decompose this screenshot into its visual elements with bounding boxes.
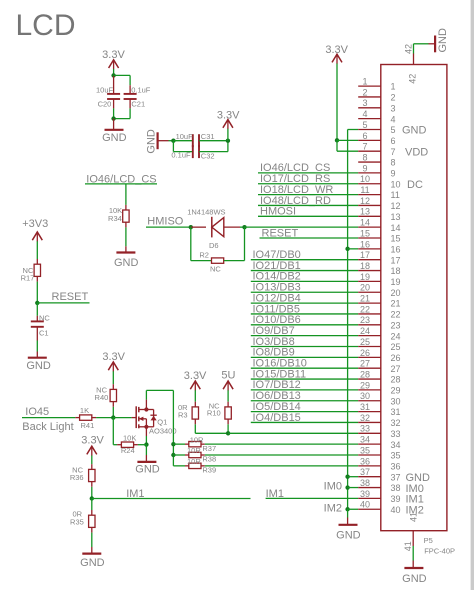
node RESET junction: [35, 301, 39, 305]
title text LCD: [16, 9, 76, 42]
svg-text:23: 23: [391, 320, 401, 330]
wire: [91, 533, 93, 547]
net label IO12/DB4 to pin 21: [251, 292, 358, 304]
wire: [113, 417, 131, 419]
svg-text:R37: R37: [202, 444, 216, 453]
node GND junction: [171, 139, 175, 143]
svg-text:C31: C31: [201, 132, 215, 141]
node 3.3V junction: [111, 73, 115, 77]
pin 40: [358, 500, 424, 517]
node HMISO junction: [189, 225, 193, 229]
svg-text:1K: 1K: [80, 406, 89, 415]
power 3.3V (C31 rail): [217, 109, 240, 140]
net label IO47/DB0 to pin 17: [251, 249, 358, 261]
svg-text:13: 13: [391, 212, 401, 222]
svg-text:33: 33: [391, 429, 401, 439]
pin 26: [358, 348, 400, 363]
svg-text:39: 39: [391, 494, 401, 504]
wire: [240, 226, 245, 228]
pin 22: [358, 304, 400, 319]
resistor R17 NC: [21, 259, 41, 283]
svg-text:20: 20: [391, 288, 401, 298]
pin 25: [358, 337, 400, 352]
net label IO15/DB11 to pin 28: [251, 368, 358, 380]
wire GND rail: [348, 130, 359, 510]
svg-text:19: 19: [391, 277, 401, 287]
svg-text:34: 34: [360, 435, 370, 445]
svg-text:0.1uF: 0.1uF: [171, 150, 191, 159]
svg-text:+3V3: +3V3: [22, 218, 48, 230]
svg-text:16: 16: [391, 244, 401, 254]
svg-text:DC: DC: [407, 179, 423, 191]
node GND rail pin 16: [345, 247, 358, 251]
net label IM1 (right) to pin 39: [266, 488, 359, 500]
svg-text:3: 3: [362, 98, 367, 108]
transistor Q1 AO3400: [132, 400, 177, 436]
power 3.3V (R3): [184, 370, 207, 391]
resistor R24 10K: [117, 434, 138, 455]
wire to pin 35: [205, 454, 358, 456]
pin 30: [358, 391, 400, 406]
svg-text:24: 24: [360, 326, 370, 336]
svg-text:35: 35: [391, 451, 401, 461]
node GND junction: [111, 116, 115, 120]
resistor R37 10R: [173, 435, 216, 453]
node GND rail pin 38: [345, 485, 358, 489]
svg-text:18: 18: [360, 261, 370, 271]
node GND rail pin 40: [345, 507, 358, 511]
pin 2: [358, 87, 395, 102]
pin 7: [358, 142, 428, 159]
svg-text:3.3V: 3.3V: [81, 435, 104, 447]
wire: [138, 444, 147, 446]
svg-text:22: 22: [391, 310, 401, 320]
svg-text:C32: C32: [201, 151, 215, 160]
diode D6 1N4148WS: [187, 208, 240, 250]
svg-text:12: 12: [360, 196, 370, 206]
svg-text:19: 19: [360, 272, 370, 282]
pin 28: [358, 369, 400, 384]
svg-text:11: 11: [360, 185, 369, 195]
wire: [227, 424, 229, 433]
svg-text:6: 6: [391, 136, 396, 146]
node IM1 junction: [90, 496, 94, 500]
pin 41: [403, 512, 418, 561]
pin 20: [358, 283, 400, 298]
connector name P5: [424, 536, 433, 545]
svg-text:GND: GND: [437, 28, 449, 53]
svg-text:NC: NC: [210, 264, 221, 273]
net label IO46/LCD_CS to pin 9: [258, 162, 358, 174]
svg-text:C21: C21: [131, 100, 145, 109]
svg-text:Back Light: Back Light: [22, 421, 73, 433]
svg-text:R35: R35: [70, 517, 84, 526]
svg-text:40: 40: [360, 500, 370, 510]
power +3V3: [22, 218, 48, 242]
svg-text:23: 23: [360, 315, 370, 325]
svg-text:40: 40: [391, 505, 401, 515]
pin 42: [404, 44, 429, 84]
net label IO21/DB1 to pin 18: [251, 260, 358, 272]
svg-text:27: 27: [360, 359, 370, 369]
ground (pin 42, sideways): [429, 28, 450, 53]
svg-text:16: 16: [360, 239, 370, 249]
pin 27: [358, 359, 400, 374]
svg-text:10R: 10R: [187, 446, 201, 455]
pin 12: [358, 196, 400, 211]
svg-text:NC: NC: [39, 313, 50, 322]
svg-text:LCD: LCD: [16, 9, 76, 42]
svg-text:IM0: IM0: [324, 481, 342, 493]
wire to pin 33: [228, 432, 358, 434]
wire: [227, 390, 229, 401]
svg-text:7: 7: [391, 147, 396, 157]
node backlight junction: [226, 431, 230, 435]
pin 39: [358, 489, 424, 506]
wire: [194, 390, 196, 401]
svg-text:5: 5: [362, 120, 367, 130]
svg-text:12: 12: [391, 201, 401, 211]
svg-text:GND: GND: [114, 257, 139, 269]
svg-text:1N4148WS: 1N4148WS: [187, 208, 225, 217]
node gate junction: [111, 415, 115, 419]
net label IO48/LCD_RD to pin 12: [258, 195, 358, 207]
wire drain loop: [146, 390, 173, 465]
net label RESET to pin 15: [260, 227, 359, 239]
svg-text:P5: P5: [424, 536, 433, 545]
pin 31: [358, 402, 400, 417]
svg-text:GND: GND: [402, 573, 427, 585]
svg-text:AO3400: AO3400: [149, 426, 177, 435]
resistor R39 10R: [173, 457, 216, 475]
pin 32: [358, 413, 400, 428]
ground (C31, sideways): [146, 129, 169, 154]
svg-text:41: 41: [403, 541, 413, 551]
svg-text:Q1: Q1: [157, 417, 167, 426]
net label IO14/DB2 to pin 19: [251, 271, 358, 283]
resistor R36 NC: [70, 464, 95, 487]
pin 6: [358, 131, 395, 146]
pin 5: [358, 120, 426, 137]
pin 8: [358, 152, 395, 167]
net label IO17/LCD_RS to pin 10: [258, 173, 358, 185]
svg-text:21: 21: [360, 294, 370, 304]
svg-text:10: 10: [391, 179, 401, 189]
svg-text:IO45: IO45: [25, 406, 49, 418]
wire: [195, 424, 228, 433]
power 3.3V (C20 rail): [102, 49, 125, 69]
wire: [96, 417, 113, 419]
svg-text:35: 35: [360, 445, 370, 455]
svg-text:28: 28: [391, 375, 401, 385]
wire HMISO to pin 14: [245, 226, 359, 228]
svg-text:8: 8: [362, 152, 367, 162]
svg-text:17: 17: [391, 255, 401, 265]
svg-text:30: 30: [391, 396, 401, 406]
wire: [125, 227, 127, 246]
svg-text:11: 11: [391, 190, 400, 200]
svg-text:GND: GND: [402, 125, 427, 137]
resistor R2 NC: [191, 227, 245, 273]
power 3.3V (R36): [81, 435, 104, 456]
power 5U (R10): [221, 369, 235, 390]
svg-text:9: 9: [362, 163, 367, 173]
pin 33: [358, 424, 400, 439]
pin 24: [358, 326, 400, 341]
svg-text:0.1uF: 0.1uF: [131, 85, 151, 94]
svg-text:27: 27: [391, 364, 401, 374]
svg-text:9: 9: [391, 169, 396, 179]
svg-text:R2: R2: [199, 251, 209, 260]
svg-text:HMISO: HMISO: [147, 216, 184, 228]
power 3.3V (R40): [102, 351, 125, 372]
pin 15: [358, 228, 400, 243]
svg-text:R40: R40: [95, 393, 109, 402]
svg-text:VDD: VDD: [405, 146, 428, 158]
net label IO46/LCD_CS (left): [85, 173, 157, 185]
svg-text:GND: GND: [146, 129, 158, 154]
svg-text:34: 34: [391, 440, 401, 450]
svg-text:41: 41: [409, 512, 419, 522]
svg-text:33: 33: [360, 424, 370, 434]
svg-text:13: 13: [360, 207, 370, 217]
connector value FPC-40P: [424, 547, 455, 556]
svg-text:32: 32: [391, 418, 401, 428]
net label IO5/DB14 to pin 31: [251, 401, 358, 413]
wire to pin 36: [205, 465, 358, 467]
svg-text:1: 1: [362, 77, 367, 87]
svg-text:21: 21: [391, 299, 401, 309]
ground (R35): [80, 547, 105, 569]
svg-text:15: 15: [360, 228, 370, 238]
svg-text:GND: GND: [26, 360, 51, 372]
ground (IM rail): [336, 509, 361, 541]
pin 21: [358, 294, 400, 309]
pin 37: [358, 467, 430, 484]
svg-text:36: 36: [391, 461, 401, 471]
svg-text:26: 26: [360, 348, 370, 358]
wire: [114, 108, 131, 118]
pin 9: [358, 163, 395, 178]
svg-text:29: 29: [360, 380, 370, 390]
svg-text:R41: R41: [81, 421, 95, 430]
svg-text:IM2: IM2: [324, 502, 342, 514]
node D6 output junction: [242, 225, 246, 229]
pin 14: [358, 218, 400, 233]
svg-text:24: 24: [391, 331, 401, 341]
svg-text:4: 4: [391, 114, 396, 124]
svg-text:28: 28: [360, 369, 370, 379]
svg-text:10uF: 10uF: [176, 132, 194, 141]
node VDD junction pin 6: [335, 138, 339, 142]
wire: [36, 282, 38, 303]
node 3.3V junction: [226, 139, 230, 143]
pin 3: [358, 98, 395, 113]
net label IO11/DB5 to pin 22: [251, 303, 358, 315]
net label IO18/LCD_WR to pin 11: [258, 184, 358, 196]
resistor R34 10K: [108, 205, 129, 228]
svg-text:14: 14: [360, 218, 370, 228]
ground (C20): [102, 119, 127, 144]
svg-text:10K: 10K: [123, 434, 136, 443]
net label IO13/DB3 to pin 20: [251, 282, 358, 294]
svg-text:D6: D6: [209, 241, 219, 250]
wire to pin 7: [337, 140, 358, 151]
svg-text:10: 10: [360, 174, 370, 184]
svg-text:R38: R38: [202, 455, 216, 464]
capacitor C1 NC: [31, 303, 51, 341]
svg-text:26: 26: [391, 353, 401, 363]
node source junction: [144, 442, 148, 446]
wire IM1: [92, 498, 251, 500]
svg-text:10R: 10R: [187, 457, 201, 466]
wire: [125, 184, 127, 205]
svg-text:5U: 5U: [221, 369, 235, 381]
svg-text:1: 1: [391, 82, 396, 92]
node R38 junction: [171, 453, 175, 457]
pin 18: [358, 261, 400, 276]
net label IO7/DB12 to pin 29: [251, 379, 358, 391]
pin 11: [358, 185, 400, 200]
svg-text:2: 2: [391, 93, 396, 103]
resistor R38 10R: [173, 446, 216, 463]
wire: [169, 140, 174, 142]
net label HMISO: [146, 216, 191, 228]
wire to pin 6: [337, 139, 358, 141]
svg-text:31: 31: [391, 407, 401, 417]
resistor R40 NC: [95, 384, 117, 407]
wire source: [145, 436, 147, 445]
svg-text:R24: R24: [121, 446, 135, 455]
wire: [113, 69, 115, 75]
net label IO10/DB6 to pin 23: [251, 314, 358, 326]
resistor R10 NC: [207, 402, 231, 425]
svg-text:18: 18: [391, 266, 401, 276]
net label IO45 Back Light: [22, 406, 75, 433]
net label IM0: [324, 481, 342, 493]
svg-text:C1: C1: [39, 328, 49, 337]
net label IO16/DB10 to pin 27: [251, 358, 358, 370]
pin 19: [358, 272, 400, 287]
svg-text:GND: GND: [336, 529, 361, 541]
svg-text:GND: GND: [135, 463, 160, 475]
resistor R3 0R: [178, 402, 198, 425]
svg-text:6: 6: [362, 131, 367, 141]
svg-text:4: 4: [362, 109, 367, 119]
net label IO4/DB15 to pin 32: [251, 412, 358, 424]
pin 29: [358, 380, 400, 395]
svg-text:37: 37: [391, 472, 401, 482]
capacitor C20 10uF: [96, 76, 120, 109]
resistor R41 1K: [75, 406, 96, 430]
svg-text:36: 36: [360, 456, 370, 466]
pin 17: [358, 250, 400, 265]
svg-text:20: 20: [360, 283, 370, 293]
pin 38: [358, 478, 424, 495]
net label IO8/DB9 to pin 26: [251, 347, 358, 359]
wire VDD rail: [336, 64, 338, 141]
svg-text:31: 31: [360, 402, 370, 412]
connector P5 FPC-40P body: [381, 65, 447, 531]
svg-text:22: 22: [360, 304, 370, 314]
svg-text:32: 32: [360, 413, 370, 423]
wire: [36, 341, 38, 352]
svg-text:GND: GND: [102, 132, 127, 144]
capacitor C32 0.1uF: [171, 141, 228, 161]
wire: [112, 407, 114, 418]
svg-text:25: 25: [391, 342, 401, 352]
net label HMOSI to pin 13: [258, 206, 358, 218]
pin 16: [358, 239, 400, 254]
wire to pin 34: [205, 443, 358, 445]
svg-text:2: 2: [362, 87, 367, 97]
ground (Q1 source): [135, 445, 160, 476]
svg-text:FPC-40P: FPC-40P: [424, 547, 455, 556]
svg-text:C20: C20: [98, 100, 112, 109]
svg-text:R17: R17: [21, 274, 35, 283]
svg-text:3: 3: [391, 103, 396, 113]
net label IO9/DB7 to pin 24: [251, 325, 358, 337]
svg-text:15: 15: [391, 234, 401, 244]
wire R24 gate branch: [113, 418, 117, 445]
svg-text:29: 29: [391, 386, 401, 396]
svg-text:14: 14: [391, 223, 401, 233]
pin 34: [358, 435, 400, 450]
net label RESET: [37, 291, 89, 303]
resistor R35 0R: [70, 499, 95, 533]
capacitor C31 10uF: [173, 132, 228, 147]
svg-text:R3: R3: [178, 411, 188, 420]
svg-text:39: 39: [360, 489, 370, 499]
svg-text:R36: R36: [70, 473, 84, 482]
net label IO3/DB8 to pin 25: [251, 336, 358, 348]
svg-text:3.3V: 3.3V: [102, 351, 125, 363]
pin 35: [358, 445, 400, 460]
pin 1: [358, 77, 395, 92]
wire: [114, 75, 131, 85]
svg-text:R10: R10: [207, 408, 221, 417]
svg-text:R34: R34: [108, 214, 122, 223]
svg-text:42: 42: [404, 44, 414, 54]
svg-text:10uF: 10uF: [96, 85, 114, 94]
pin 13: [358, 207, 400, 222]
net label IO6/DB13 to pin 30: [251, 390, 358, 402]
ground (C1): [26, 352, 51, 373]
pin 36: [358, 456, 400, 471]
svg-text:RESET: RESET: [52, 291, 89, 303]
capacitor C21 0.1uF: [124, 85, 151, 108]
node R37 junction: [171, 442, 175, 446]
svg-text:17: 17: [360, 250, 370, 260]
wire: [36, 241, 38, 259]
svg-text:37: 37: [360, 467, 370, 477]
ground (R34): [114, 246, 139, 269]
svg-text:8: 8: [391, 158, 396, 168]
svg-text:GND: GND: [80, 557, 105, 569]
net label IM1 (left): [126, 488, 144, 500]
svg-text:42: 42: [408, 74, 418, 84]
svg-text:38: 38: [391, 483, 401, 493]
net label IM2: [324, 502, 342, 514]
svg-text:38: 38: [360, 478, 370, 488]
svg-text:7: 7: [362, 142, 367, 152]
svg-text:25: 25: [360, 337, 370, 347]
ground (pin 41): [402, 561, 427, 585]
wire: [112, 371, 114, 384]
svg-text:5: 5: [391, 125, 396, 135]
pin 4: [358, 109, 395, 124]
node GND rail pin 37: [345, 475, 358, 479]
